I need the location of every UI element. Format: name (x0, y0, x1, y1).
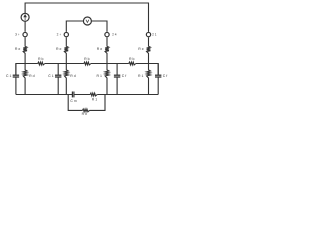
svg-text:R 1: R 1 (138, 74, 144, 78)
capacitor shunt col1 (13, 64, 19, 95)
resistor bus R2 (84, 62, 91, 65)
resistor upper col1 (23, 37, 27, 63)
resistor lower col3 (105, 64, 109, 95)
svg-text:2 4: 2 4 (112, 33, 117, 37)
capacitor Cm series (72, 92, 74, 98)
capacitor shunt col2 (55, 64, 61, 95)
resistor Ri series (90, 93, 97, 96)
svg-text:R b: R b (129, 57, 135, 61)
svg-text:2 1: 2 1 (152, 33, 157, 37)
resistor bus R1 (38, 62, 45, 65)
node terminal 2 (64, 32, 68, 36)
current source arrow (24, 15, 26, 21)
svg-text:C 1: C 1 (48, 74, 54, 78)
svg-text:3 +: 3 + (15, 33, 20, 37)
wire bottom rail right (97, 94, 158, 96)
wire V1 right lead (91, 21, 107, 32)
wire I1 to node 1 (24, 21, 26, 32)
resistor lower col4 (147, 64, 151, 95)
resistor upper col3 (105, 37, 109, 63)
wire V1 left lead (66, 21, 83, 32)
svg-text:R e: R e (56, 47, 62, 51)
svg-text:R 1: R 1 (97, 74, 103, 78)
svg-text:C f: C f (122, 74, 127, 78)
voltage source V1 (83, 17, 91, 25)
wire top rail (25, 3, 148, 32)
resistor upper col2 (64, 37, 68, 63)
svg-text:R d: R d (70, 74, 76, 78)
node terminal 3 (105, 32, 109, 36)
resistor Re bypass (83, 109, 90, 112)
resistor lower col1 (23, 64, 27, 95)
node terminal 4 (146, 32, 150, 36)
node terminal 1 (23, 32, 27, 36)
svg-text:C 1: C 1 (6, 74, 12, 78)
resistor lower col2 (64, 64, 68, 95)
svg-text:C m: C m (70, 99, 77, 103)
svg-text:R b: R b (84, 57, 90, 61)
wire mid bus (16, 64, 158, 76)
resistor bus R3 (129, 62, 136, 65)
svg-text:C f: C f (163, 74, 168, 78)
wire bypass loop (68, 95, 105, 111)
capacitor shunt col4 (155, 64, 161, 95)
svg-text:R e: R e (97, 47, 103, 51)
wire bottom rail left (16, 94, 73, 96)
capacitor shunt col3 (114, 64, 120, 95)
label v inside V1 (86, 20, 89, 23)
svg-text:R e: R e (138, 47, 144, 51)
svg-text:R b: R b (38, 57, 44, 61)
resistor upper col4 (147, 37, 151, 63)
svg-text:R d: R d (29, 74, 34, 78)
svg-text:R 1: R 1 (92, 97, 98, 101)
svg-text:R e: R e (15, 47, 21, 51)
wire Cm to Ri (74, 94, 90, 96)
current source I1 (21, 13, 29, 21)
svg-text:2 +: 2 + (57, 33, 62, 37)
svg-text:R e: R e (82, 112, 88, 116)
